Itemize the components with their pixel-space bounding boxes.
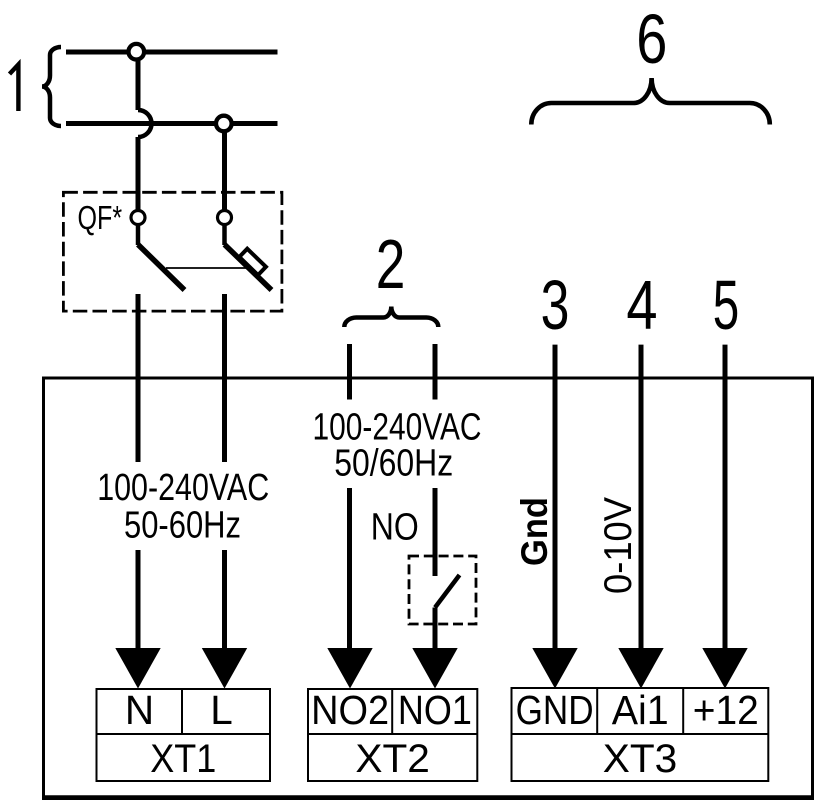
node A — [129, 44, 145, 60]
wire L2 horizontal — [66, 121, 278, 126]
device outline bottom edge — [42, 795, 814, 800]
svg-text:NO1: NO1 — [398, 687, 472, 733]
svg-text:+12: +12 — [693, 687, 759, 733]
svg-text:Gnd: Gnd — [514, 497, 555, 566]
wire stub NO2 — [347, 344, 352, 400]
QF mechanical link — [166, 267, 246, 269]
svg-text:3: 3 — [541, 266, 570, 344]
QF thermal element on pole 2 — [239, 249, 266, 275]
wire from relay contact — [433, 608, 438, 656]
svg-text:50-60Hz: 50-60Hz — [124, 505, 241, 547]
wire to L — [222, 550, 227, 655]
QF pole 2 contact stub — [222, 224, 227, 245]
wire to N — [136, 550, 141, 655]
wire hop over L2 — [138, 110, 152, 137]
svg-text:QF*: QF* — [78, 200, 123, 237]
QF pole 1 contact stub — [136, 224, 141, 245]
QF pole 1 blade — [138, 245, 185, 291]
svg-text:100-240VAC: 100-240VAC — [97, 467, 269, 509]
arrow into L — [202, 648, 247, 689]
svg-text:L: L — [210, 687, 233, 733]
svg-text:2: 2 — [376, 226, 406, 304]
QF pole 2 blade — [225, 245, 272, 291]
wire from node A down — [136, 52, 141, 110]
brace for group 1 — [42, 47, 61, 126]
svg-text:Ai1: Ai1 — [612, 687, 669, 733]
brace for group 2 — [344, 307, 438, 328]
wire QF pole 1 lower — [136, 294, 141, 462]
circuit breaker QF* dashed enclosure — [63, 192, 282, 311]
svg-text:6: 6 — [636, 1, 667, 78]
brace for group 6 — [531, 78, 770, 125]
svg-text:GND: GND — [516, 687, 594, 733]
terminal block XT3 — [512, 688, 769, 781]
svg-text:4: 4 — [626, 267, 657, 344]
svg-text:N: N — [125, 687, 154, 733]
arrow into N — [115, 648, 160, 689]
arrow into NO2 — [327, 648, 372, 689]
svg-text:5: 5 — [713, 266, 739, 344]
label 1 — [10, 65, 19, 112]
arrow into Ai1 — [618, 648, 663, 689]
arrow into GND — [532, 648, 577, 689]
wire hop to QF pole 1 — [136, 137, 141, 215]
terminal block XT2 — [308, 689, 477, 781]
relay contact blade — [435, 575, 460, 608]
QF pole 2 pivot — [218, 211, 232, 225]
svg-text:NO2: NO2 — [311, 687, 389, 733]
wire stub NO1 — [433, 344, 438, 400]
wire to Ai1 — [639, 345, 644, 655]
terminal block XT1 — [97, 689, 271, 781]
svg-text:0-10V: 0-10V — [597, 497, 640, 594]
wire to relay contact — [433, 488, 438, 576]
wire from node B to QF pole 2 — [222, 124, 227, 216]
relay contact dashed enclosure — [409, 556, 476, 624]
svg-text:50/60Hz: 50/60Hz — [334, 443, 453, 485]
svg-text:XT1: XT1 — [150, 737, 216, 781]
wire to GND — [553, 345, 558, 655]
svg-text:NO: NO — [371, 507, 419, 549]
wire to NO2 — [347, 488, 352, 655]
wire L1 horizontal — [66, 50, 278, 55]
QF pole 1 pivot — [131, 211, 145, 225]
device outline box — [44, 378, 813, 797]
wire to +12 — [723, 345, 728, 655]
svg-text:XT3: XT3 — [603, 737, 678, 781]
arrow into NO1 — [412, 648, 457, 689]
arrow into +12 — [702, 648, 747, 689]
svg-text:XT2: XT2 — [355, 737, 430, 781]
node B — [216, 116, 232, 132]
wire QF pole 2 lower — [222, 294, 227, 462]
